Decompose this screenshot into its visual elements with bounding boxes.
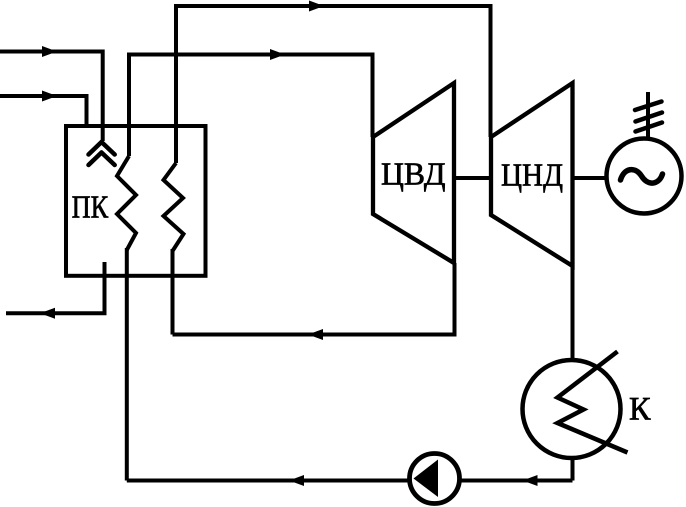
- label CND: [501, 157, 563, 193]
- wire condenser to pump: [460, 479, 573, 483]
- wire LP exhaust to condenser: [571, 264, 575, 361]
- burner chevron 1: [89, 142, 115, 155]
- wire pump to boiler feed line: [127, 479, 410, 483]
- wire air input line: [0, 94, 87, 126]
- shaft HP-LP: [454, 176, 491, 180]
- wire feedwater riser: [125, 248, 129, 481]
- label CVD: [381, 155, 446, 191]
- arrowhead flue gas: [40, 308, 55, 319]
- shaft LP-generator: [573, 176, 609, 180]
- wire reheat steam: riser from coil2, top line to LP turbine: [176, 6, 491, 163]
- condenser circle K: [523, 360, 621, 458]
- arrowhead main steam: [270, 49, 285, 60]
- coil 1 zigzag (evaporator): [117, 156, 136, 250]
- grid connection stem: [646, 92, 650, 140]
- label K: [629, 392, 651, 428]
- arrowhead fuel input: [42, 46, 57, 57]
- svg-text:ЦВД: ЦВД: [381, 155, 446, 191]
- generator tilde: [621, 170, 663, 184]
- grid hatch 1: [635, 102, 662, 111]
- svg-text:ЦНД: ЦНД: [501, 157, 563, 193]
- wire fuel input line: [0, 50, 103, 142]
- coil 2 zigzag (reheater): [164, 163, 184, 251]
- grid hatch 3: [636, 123, 663, 132]
- label PK: [72, 189, 109, 225]
- condenser coil zigzag: [558, 352, 628, 453]
- wire main steam: riser from coil1, line to HP turbine: [129, 55, 373, 157]
- boiler PK box: [66, 126, 206, 276]
- wire flue gas outlet: [6, 262, 107, 313]
- arrowhead air input: [42, 91, 57, 102]
- arrowhead feedwater: [289, 475, 304, 486]
- turbine HP cylinder CVD: [373, 83, 454, 263]
- svg-text:ПК: ПК: [72, 189, 109, 225]
- grid hatch 2: [636, 113, 663, 122]
- burner chevron 2: [89, 153, 115, 166]
- turbine LP cylinder CND: [491, 83, 573, 266]
- arrowhead condensate: [523, 475, 538, 486]
- wire cold reheat return from HP turbine: [173, 249, 455, 335]
- arrowhead reheat return: [308, 329, 323, 340]
- arrowhead reheat steam: [309, 1, 324, 12]
- pump rotor triangle: [414, 460, 439, 498]
- pump circle: [410, 454, 460, 504]
- svg-text:К: К: [629, 392, 651, 428]
- generator circle: [607, 139, 682, 214]
- wire condensate drop: [571, 456, 575, 481]
